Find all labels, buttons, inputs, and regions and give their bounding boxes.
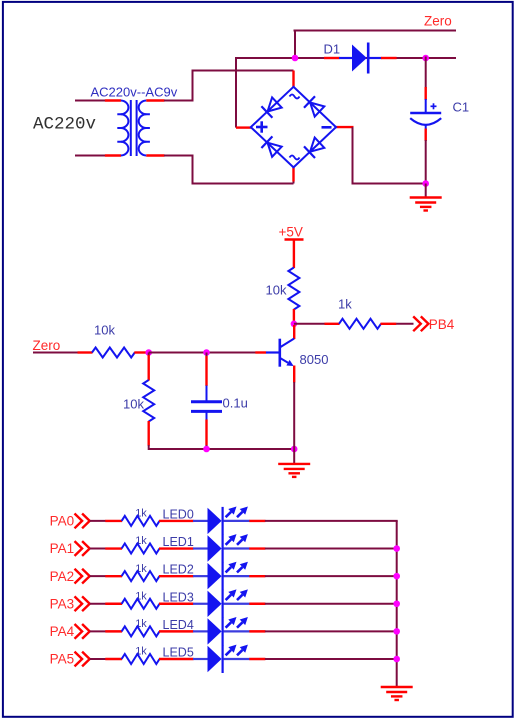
pin R4 right xyxy=(134,351,148,353)
pin Q1 base xyxy=(255,351,266,353)
svg-text:0.1u: 0.1u xyxy=(223,396,248,411)
transformer T1 secondary winding xyxy=(139,101,147,115)
pin D1 cathode xyxy=(381,57,397,59)
wire D1 row xyxy=(236,57,456,59)
pin resistor row0 right / LED0 anode pin xyxy=(159,520,194,522)
svg-text:PA5: PA5 xyxy=(50,652,75,667)
wire R3 to PB4 port xyxy=(396,323,413,325)
junction dot bus row3 xyxy=(393,600,400,607)
bridge diode top-right xyxy=(310,103,324,117)
junction dot C1 top node xyxy=(422,55,429,62)
pin transformer pin4 xyxy=(146,154,164,156)
port PA0 chevrons xyxy=(75,514,83,529)
port PA1 chevrons xyxy=(75,541,83,556)
junction dot bus row5 xyxy=(393,656,400,663)
pin transformer pin2 xyxy=(105,154,121,156)
wire LED2 to bus xyxy=(265,575,398,577)
pin bridge bottom vertex xyxy=(293,181,295,184)
pin R5 top xyxy=(148,353,150,357)
pin C1 positive xyxy=(425,87,427,100)
wire PA1 to resistor xyxy=(90,548,106,550)
wire PA3 to resistor xyxy=(90,603,106,605)
svg-text:LED3: LED3 xyxy=(163,590,194,604)
diode D1 xyxy=(339,57,353,59)
wire collector node to R3 xyxy=(294,323,325,325)
transformer T1 primary winding xyxy=(121,101,129,115)
resistor 1k row1 xyxy=(122,544,160,554)
svg-text:PB4: PB4 xyxy=(429,317,455,332)
pin resistor row1 right / LED1 anode pin xyxy=(159,547,194,549)
junction dot Zero riser xyxy=(292,55,299,62)
junction dot ground node top xyxy=(422,180,429,187)
junction dot cap bottom xyxy=(203,446,210,453)
wire LED0 to bus xyxy=(265,520,398,522)
wire +5V to R2 xyxy=(293,240,295,269)
port PA2 chevrons xyxy=(75,569,83,584)
pin LED3 cathode xyxy=(249,603,265,605)
svg-text:PA3: PA3 xyxy=(50,596,75,611)
resistor R4 10k horizontal xyxy=(92,348,135,358)
ground bottom section xyxy=(381,686,413,688)
LED LED0 xyxy=(193,520,208,522)
power rail +5V bar xyxy=(285,238,304,241)
svg-text:AC220v--AC9v: AC220v--AC9v xyxy=(91,84,178,99)
svg-text:+5V: +5V xyxy=(279,225,303,240)
pin LED1 cathode xyxy=(249,547,265,549)
pin bridge left vertex xyxy=(236,126,252,128)
wire ground stub top xyxy=(425,184,427,198)
wire Zero net top xyxy=(294,30,457,32)
pin LED5 cathode xyxy=(249,658,265,660)
port PA4 chevrons xyxy=(75,624,83,639)
capacitor C1 polarized xyxy=(425,99,427,113)
pin C2 bottom xyxy=(205,420,207,446)
port PB4 chevrons xyxy=(413,316,421,331)
svg-text:AC220v: AC220v xyxy=(33,115,96,135)
svg-text:8050: 8050 xyxy=(300,352,329,367)
wire transformer top to bridge xyxy=(164,100,193,102)
pin resistor row2 right / LED2 anode pin xyxy=(159,575,194,577)
pin R2 bottom xyxy=(293,309,295,325)
junction dot base node A xyxy=(145,349,152,356)
resistor 1k row0 xyxy=(122,516,160,526)
svg-text:LED2: LED2 xyxy=(163,563,194,577)
svg-text:LED0: LED0 xyxy=(163,508,194,522)
bridge AC mark top xyxy=(290,95,300,99)
pin resistor row1 left xyxy=(105,547,122,549)
ground top section xyxy=(410,196,442,198)
svg-text:C1: C1 xyxy=(453,100,470,115)
pin R4 left xyxy=(78,351,93,353)
pin resistor row5 left xyxy=(105,658,122,660)
svg-text:1k: 1k xyxy=(338,297,352,312)
wire base node xyxy=(149,352,256,354)
pin LED0 cathode xyxy=(249,520,265,522)
svg-text:LED5: LED5 xyxy=(163,646,194,660)
LED LED5 xyxy=(193,658,208,660)
bridge diode bottom-left xyxy=(268,143,282,157)
pin bridge top vertex xyxy=(292,71,294,88)
wire LED4 to bus xyxy=(265,630,398,632)
svg-text:10k: 10k xyxy=(266,283,287,298)
pin resistor row3 right / LED3 anode pin xyxy=(159,603,194,605)
svg-text:LED1: LED1 xyxy=(163,535,194,549)
wire emitter down xyxy=(293,382,295,449)
pin resistor row3 left xyxy=(105,603,122,605)
pin Q1 collector xyxy=(293,325,295,339)
transformer T1 core xyxy=(130,100,132,156)
transistor Q1 8050 xyxy=(278,339,281,367)
bridge diode bottom-right xyxy=(310,138,324,152)
bridge diode top-left xyxy=(268,97,282,111)
svg-text:D1: D1 xyxy=(324,42,341,57)
wire AC input bottom xyxy=(75,155,106,157)
pin R5 bottom xyxy=(147,421,149,446)
wire AC input top xyxy=(75,100,106,102)
wire PA0 to resistor xyxy=(90,520,106,522)
svg-text:PA4: PA4 xyxy=(50,624,75,639)
capacitor C2 0.1u xyxy=(206,386,208,401)
resistor 1k row2 xyxy=(122,571,160,581)
pin resistor row4 left xyxy=(105,630,122,632)
pin resistor row0 left xyxy=(105,520,122,522)
pin C2 top xyxy=(206,353,208,358)
pin resistor row5 right / LED5 anode pin xyxy=(159,658,194,660)
wire ground stub middle xyxy=(293,449,295,464)
svg-text:10k: 10k xyxy=(123,397,144,412)
pin resistor row4 right / LED4 anode pin xyxy=(159,630,194,632)
junction dot bus row1 xyxy=(393,545,400,552)
pin Q1 emitter xyxy=(293,366,295,383)
port PA5 chevrons xyxy=(75,652,83,667)
wire LED common bus xyxy=(396,521,398,687)
pin D1 anode xyxy=(324,57,340,59)
pin bridge right vertex xyxy=(336,126,354,128)
LED LED3 xyxy=(193,603,208,605)
port PA3 chevrons xyxy=(75,596,83,611)
pin transformer pin1 xyxy=(105,99,121,101)
pin LED2 cathode xyxy=(249,575,265,577)
wire C1 bottom xyxy=(425,140,427,185)
ground middle section xyxy=(278,463,310,465)
LED LED4 xyxy=(193,630,208,632)
bridge AC mark bottom xyxy=(290,156,300,160)
pin R3 left xyxy=(325,323,340,325)
LED LED2 xyxy=(193,575,208,577)
svg-text:PA2: PA2 xyxy=(50,569,75,584)
resistor 1k row3 xyxy=(122,599,160,609)
resistor R3 1k horizontal xyxy=(339,319,381,329)
wire LED3 to bus xyxy=(265,603,398,605)
bridge rectifier B1 diamond xyxy=(251,87,336,168)
resistor R2 10k vertical xyxy=(288,268,299,310)
junction dot bus row2 xyxy=(393,573,400,580)
junction dot emitter ground node xyxy=(291,446,298,453)
wire LED5 to bus xyxy=(265,658,398,660)
pin resistor row2 left xyxy=(105,575,122,577)
wire bridge minus to ground node xyxy=(352,127,354,183)
wire bridge plus riser xyxy=(235,57,237,128)
svg-text:LED4: LED4 xyxy=(163,618,194,632)
svg-text:10k: 10k xyxy=(94,323,115,338)
pin C1 negative xyxy=(425,129,427,142)
wire transformer bottom to bridge xyxy=(164,155,193,157)
resistor R5 10k vertical xyxy=(143,380,154,422)
svg-text:PA0: PA0 xyxy=(50,514,75,529)
wire emitter bottom rail xyxy=(149,448,295,450)
bridge plus mark xyxy=(256,126,268,129)
junction dot bus row4 xyxy=(393,628,400,635)
wire PA2 to resistor xyxy=(90,575,106,577)
LED LED1 xyxy=(193,547,208,549)
junction dot cap node xyxy=(203,349,210,356)
wire PA4 to resistor xyxy=(90,630,106,632)
wire Zero riser xyxy=(294,31,296,60)
wire C1 top xyxy=(425,57,427,89)
pin LED4 cathode xyxy=(249,630,265,632)
resistor 1k row4 xyxy=(122,626,160,636)
bridge minus mark xyxy=(322,126,332,129)
pin transformer pin3 xyxy=(146,99,164,101)
wire Zero input xyxy=(33,352,78,354)
svg-text:Zero: Zero xyxy=(424,14,452,29)
resistor 1k row5 xyxy=(122,654,160,664)
wire LED1 to bus xyxy=(265,548,398,550)
junction dot collector node xyxy=(291,321,298,328)
wire PA5 to resistor xyxy=(90,658,106,660)
svg-text:PA1: PA1 xyxy=(50,541,75,556)
svg-text:Zero: Zero xyxy=(33,338,61,353)
pin R3 right xyxy=(381,323,397,325)
